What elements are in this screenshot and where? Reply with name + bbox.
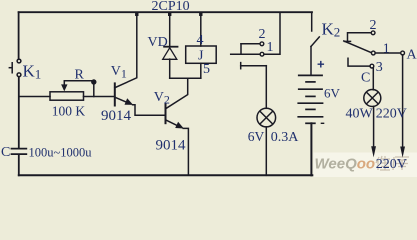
wire K2 contact 2 lead tick	[345, 40, 351, 42]
wire lamp EL1 to bottom rail	[265, 127, 267, 175]
svg-text:R: R	[75, 68, 85, 83]
wire battery positive riser	[310, 47, 312, 75]
node dot wiper junction	[91, 79, 96, 84]
svg-text:1: 1	[383, 41, 390, 56]
svg-text:100u~1000u: 100u~1000u	[29, 146, 93, 160]
svg-text:9014: 9014	[156, 137, 187, 153]
wire node A down to mains	[402, 55, 404, 148]
wire relay contact to rail riser	[264, 13, 280, 54]
wire wiper top link	[64, 80, 94, 82]
svg-text:6V: 6V	[324, 86, 341, 101]
lamp EL1 6V 0.3A	[257, 108, 276, 127]
wire left column upper	[18, 12, 20, 59]
wire lamp EL2 riser	[372, 68, 374, 90]
wire V2 emitter drop	[183, 128, 188, 175]
svg-text:VD: VD	[148, 35, 168, 50]
wire VD-J bottom bus	[170, 77, 201, 79]
switch K2 selector blade	[344, 41, 372, 53]
wire lamp branch drop	[265, 66, 267, 109]
watermark ghost glyph 1	[376, 156, 390, 170]
watermark ghost glyph 2	[393, 157, 409, 170]
wire base feed to R	[19, 96, 50, 98]
wire K2 contact 2 lead	[348, 33, 372, 42]
svg-text:40W: 40W	[346, 107, 374, 122]
wire J top lead pin4	[200, 13, 202, 46]
svg-text:3: 3	[376, 60, 383, 75]
wire lamp branch terminal bar	[240, 63, 242, 69]
switch K2 contact circles	[371, 31, 375, 35]
capacitor C plates	[11, 149, 28, 155]
wire battery negative drop	[310, 123, 312, 175]
wire rail end drop to K2	[311, 12, 313, 31]
potentiometer R wiper arrow	[63, 81, 65, 85]
lamp EL2 40W 220V	[364, 90, 381, 107]
svg-text:220V: 220V	[376, 107, 407, 122]
switch K2 pole blade	[311, 37, 319, 47]
wire R to V1 base	[84, 96, 115, 98]
wire J bottom lead pin5	[200, 63, 202, 78]
svg-text:2: 2	[370, 18, 377, 33]
wire left column lower	[18, 155, 20, 175]
svg-text:C: C	[1, 145, 10, 160]
wire bottom rail	[19, 174, 313, 176]
svg-text:6V: 6V	[248, 129, 265, 144]
node dot VD on rail	[168, 12, 171, 16]
svg-text:V1: V1	[111, 64, 127, 81]
wire lamp EL2 down to mains	[373, 106, 375, 147]
svg-text:A: A	[407, 47, 417, 62]
wire V1 emitter to V2 base	[133, 105, 166, 116]
svg-text:C: C	[361, 71, 370, 86]
transistor V1	[115, 82, 131, 106]
svg-text:9014: 9014	[101, 108, 132, 124]
wire V2 collector riser	[166, 78, 188, 109]
mains arrow left	[371, 146, 376, 157]
svg-text:V2: V2	[154, 90, 170, 107]
wire left column middle	[18, 77, 20, 148]
svg-text:+: +	[317, 57, 325, 72]
wire lamp branch horizontal	[241, 65, 267, 67]
svg-text:0.3A: 0.3A	[271, 130, 300, 145]
relay coil J	[186, 46, 217, 63]
wire top rail	[19, 11, 312, 13]
watermark box	[313, 153, 417, 178]
relay contact circles	[260, 42, 264, 46]
transistor V2	[166, 103, 182, 127]
diode VD 2CP10	[163, 47, 179, 60]
battery GB 6V	[297, 75, 323, 123]
node dot J pin4 on rail	[199, 12, 202, 16]
node dot V1 collector on rail	[135, 12, 138, 16]
svg-text:2: 2	[259, 27, 266, 42]
wire contact 1 to A	[375, 52, 401, 54]
wire relay contact 1 lead	[231, 53, 260, 55]
svg-text:1: 1	[267, 40, 274, 55]
svg-text:100 K: 100 K	[52, 104, 86, 119]
wire VD bottom lead	[169, 59, 171, 78]
svg-text:2CP10: 2CP10	[152, 0, 190, 14]
wire V1 collector riser	[115, 13, 137, 88]
svg-text:220V: 220V	[376, 157, 407, 172]
wire VD top lead	[169, 13, 171, 46]
wire K2 contact 3 lead	[348, 58, 370, 66]
potentiometer R body	[50, 92, 84, 100]
wire relay contact 2 lead	[241, 43, 260, 45]
svg-text:4: 4	[197, 33, 204, 48]
mains arrow right	[400, 147, 405, 158]
label battery minus	[321, 122, 325, 124]
svg-text:5: 5	[203, 62, 210, 77]
svg-text:WeeQoo: WeeQoo	[315, 156, 376, 173]
wire relay contact bracket	[240, 44, 242, 54]
pushbutton K1	[9, 59, 21, 77]
wire wiper drop to output	[93, 81, 95, 97]
